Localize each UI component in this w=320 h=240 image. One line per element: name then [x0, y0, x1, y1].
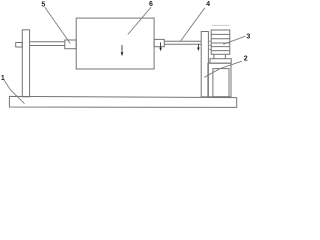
motor fin line 2	[211, 38, 230, 40]
motor mount flange plate	[210, 59, 231, 64]
leader line 5	[45, 7, 71, 43]
leader line 1	[4, 80, 25, 104]
motor coupling tick 3	[208, 48, 211, 50]
motor fin line 1	[211, 33, 230, 35]
motor right leg	[224, 54, 226, 58]
support pedestal 2 outer	[208, 63, 231, 97]
left shaft bottom line	[30, 45, 65, 47]
svg-text:6: 6	[149, 1, 153, 8]
coupling 5	[65, 40, 76, 49]
support pedestal 2 inner	[213, 69, 229, 97]
left support post	[22, 30, 29, 97]
housing box 6	[76, 18, 154, 69]
svg-text:2: 2	[244, 55, 248, 62]
flow arrow inside box 6	[121, 45, 123, 53]
leader line 3	[223, 36, 245, 44]
leader line 6	[128, 7, 151, 34]
motor fin line 5	[211, 50, 230, 52]
leader line 4	[180, 8, 205, 42]
motor fin line 3	[211, 42, 230, 44]
flow arrow at right coupling	[160, 42, 162, 48]
left bearing knob	[16, 43, 23, 48]
svg-text:4: 4	[206, 1, 210, 8]
right coupling block	[154, 39, 164, 46]
base plate 1	[9, 96, 236, 107]
right bearing stand	[201, 32, 208, 97]
motor 3 body	[211, 30, 230, 54]
motor coupling tick 2	[208, 44, 211, 46]
svg-text:5: 5	[41, 2, 45, 9]
motor coupling tick 1	[208, 40, 211, 42]
leader line 2	[204, 61, 242, 77]
right shaft top line	[164, 40, 201, 42]
motor ghost top line	[212, 24, 230, 26]
svg-text:1: 1	[1, 75, 5, 82]
right shaft bottom line	[164, 43, 201, 45]
motor left leg	[213, 54, 215, 58]
flow arrow at bearing stand	[197, 44, 199, 48]
motor fin line 4	[211, 46, 230, 48]
left shaft top line	[30, 41, 65, 43]
svg-text:3: 3	[246, 34, 250, 41]
